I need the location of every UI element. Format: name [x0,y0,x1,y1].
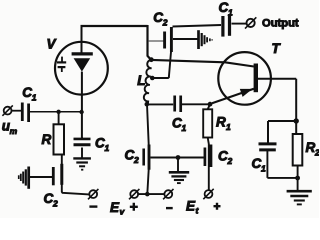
svg-text:2: 2 [314,148,319,158]
svg-text:C: C [153,10,163,25]
varactor capacitor mark [57,57,66,72]
svg-text:1: 1 [226,122,231,132]
svg-text:Output: Output [262,17,299,29]
svg-text:1: 1 [32,92,37,102]
label minus (Et) [166,207,173,209]
resistor R1 [203,109,212,137]
svg-text:2: 2 [133,155,139,165]
capacitor C1 (ground, below varactor) [74,139,91,145]
input terminal [2,105,12,115]
svg-text:C: C [172,116,182,131]
capacitor C2 (bottom middle left) [144,145,149,170]
ground (bottom middle) [169,158,189,184]
node coil bottom [145,102,150,107]
svg-text:1: 1 [105,143,110,153]
capacitor C1 (right) [259,144,277,150]
wire R top lead [58,112,60,125]
output terminal [245,17,256,28]
wire top rail [81,25,148,27]
capacitor C2 (bottom middle right) [205,145,211,168]
wire bottom mid rail [138,193,164,195]
node coil tap [150,76,155,81]
wire C1g lead from varactor node [81,137,83,138]
wire collector (coil top to transistor bar) [151,60,254,67]
wire top rail down to coil [148,25,151,59]
node base/R2 junction [294,118,299,123]
label plus (Ev) [130,203,138,211]
svg-text:C: C [125,148,135,163]
svg-text:C: C [95,136,105,151]
node coil top [149,57,154,62]
wire C1 to ground [81,148,83,159]
label minus (Ev) [89,205,97,207]
wire C2 to chassis ground [30,176,53,178]
transistor emitter with arrow [212,89,254,104]
resistor R [54,124,65,154]
wire varactor vertical [81,26,83,138]
varactor V circle [55,42,108,95]
transistor T circle [218,52,271,105]
node varactor-bottom junction [79,110,83,114]
wire C1 to output terminal [232,23,247,25]
wire emitter row (coil bottom to C1) [147,103,173,105]
svg-text:2: 2 [227,156,233,166]
svg-text:1: 1 [261,163,266,173]
chassis ground (sideways, left) [19,167,29,189]
capacitor C1 (middle) [175,96,181,113]
svg-text:1: 1 [182,123,187,133]
wire R2 bottom lead [297,166,299,191]
terminal Et minus [163,189,173,199]
node bottom mid [145,192,150,197]
svg-text:C: C [218,149,228,164]
svg-text:1: 1 [228,7,233,17]
inductor L [144,60,153,104]
wire C1 to emitter node [182,103,210,105]
svg-text:2: 2 [52,199,58,209]
svg-text:L: L [137,73,145,88]
node R2/C1 bottom [295,176,300,181]
varactor diode triangle [74,58,91,71]
wire faint C2 left lead [148,40,163,42]
capacitor C1 (top/output) [223,15,230,37]
wire base lead [258,79,296,134]
wire C2 to ground node to C2 [151,157,204,159]
svg-text:C: C [252,156,262,171]
wire R bottom lead [62,155,89,195]
svg-text:C: C [22,85,32,100]
wire input terminal to C1 [12,110,22,112]
wire R1 bottom to terminal [208,138,209,191]
terminal Ev minus [88,189,98,199]
node R-top [56,110,60,114]
ground (bottom right) [287,191,312,204]
svg-text:R: R [216,114,226,129]
wire R1 top lead [208,104,210,109]
svg-text:V: V [47,37,57,52]
ground (below C1) [73,158,91,169]
resistor R2 [293,134,303,166]
varactor diode cathode bar [72,52,93,55]
label plus (Et) [214,203,221,210]
svg-text:C: C [219,0,229,15]
wire C2 to C1 (output coupling) [173,25,222,27]
capacitor C1 (input) [22,103,28,123]
svg-text:C: C [44,191,54,206]
node ground [176,155,181,160]
svg-text:E: E [110,200,120,215]
wire coil tap to C2 plate [152,50,171,79]
wire branch to C1 (right) [268,121,296,143]
svg-text:E: E [186,199,196,214]
terminal Et plus [203,189,213,199]
wire C1 to varactor line [30,111,82,113]
rf ground (sideways, top) [199,30,213,49]
svg-text:2: 2 [162,17,168,27]
terminal Ev plus [129,189,139,199]
svg-text:m: m [10,126,18,136]
svg-text:R: R [306,140,316,155]
wire coil bottom down through C2 [147,104,149,194]
transistor base bar [254,64,258,93]
capacitor C2 (bottom left) [53,164,62,186]
wire C2 to rf-ground [173,38,198,40]
wire C1 bottom lead [267,150,297,178]
svg-text:R: R [42,132,52,147]
capacitor C2 (top) [165,27,172,52]
node emitter/R1 [208,102,213,107]
